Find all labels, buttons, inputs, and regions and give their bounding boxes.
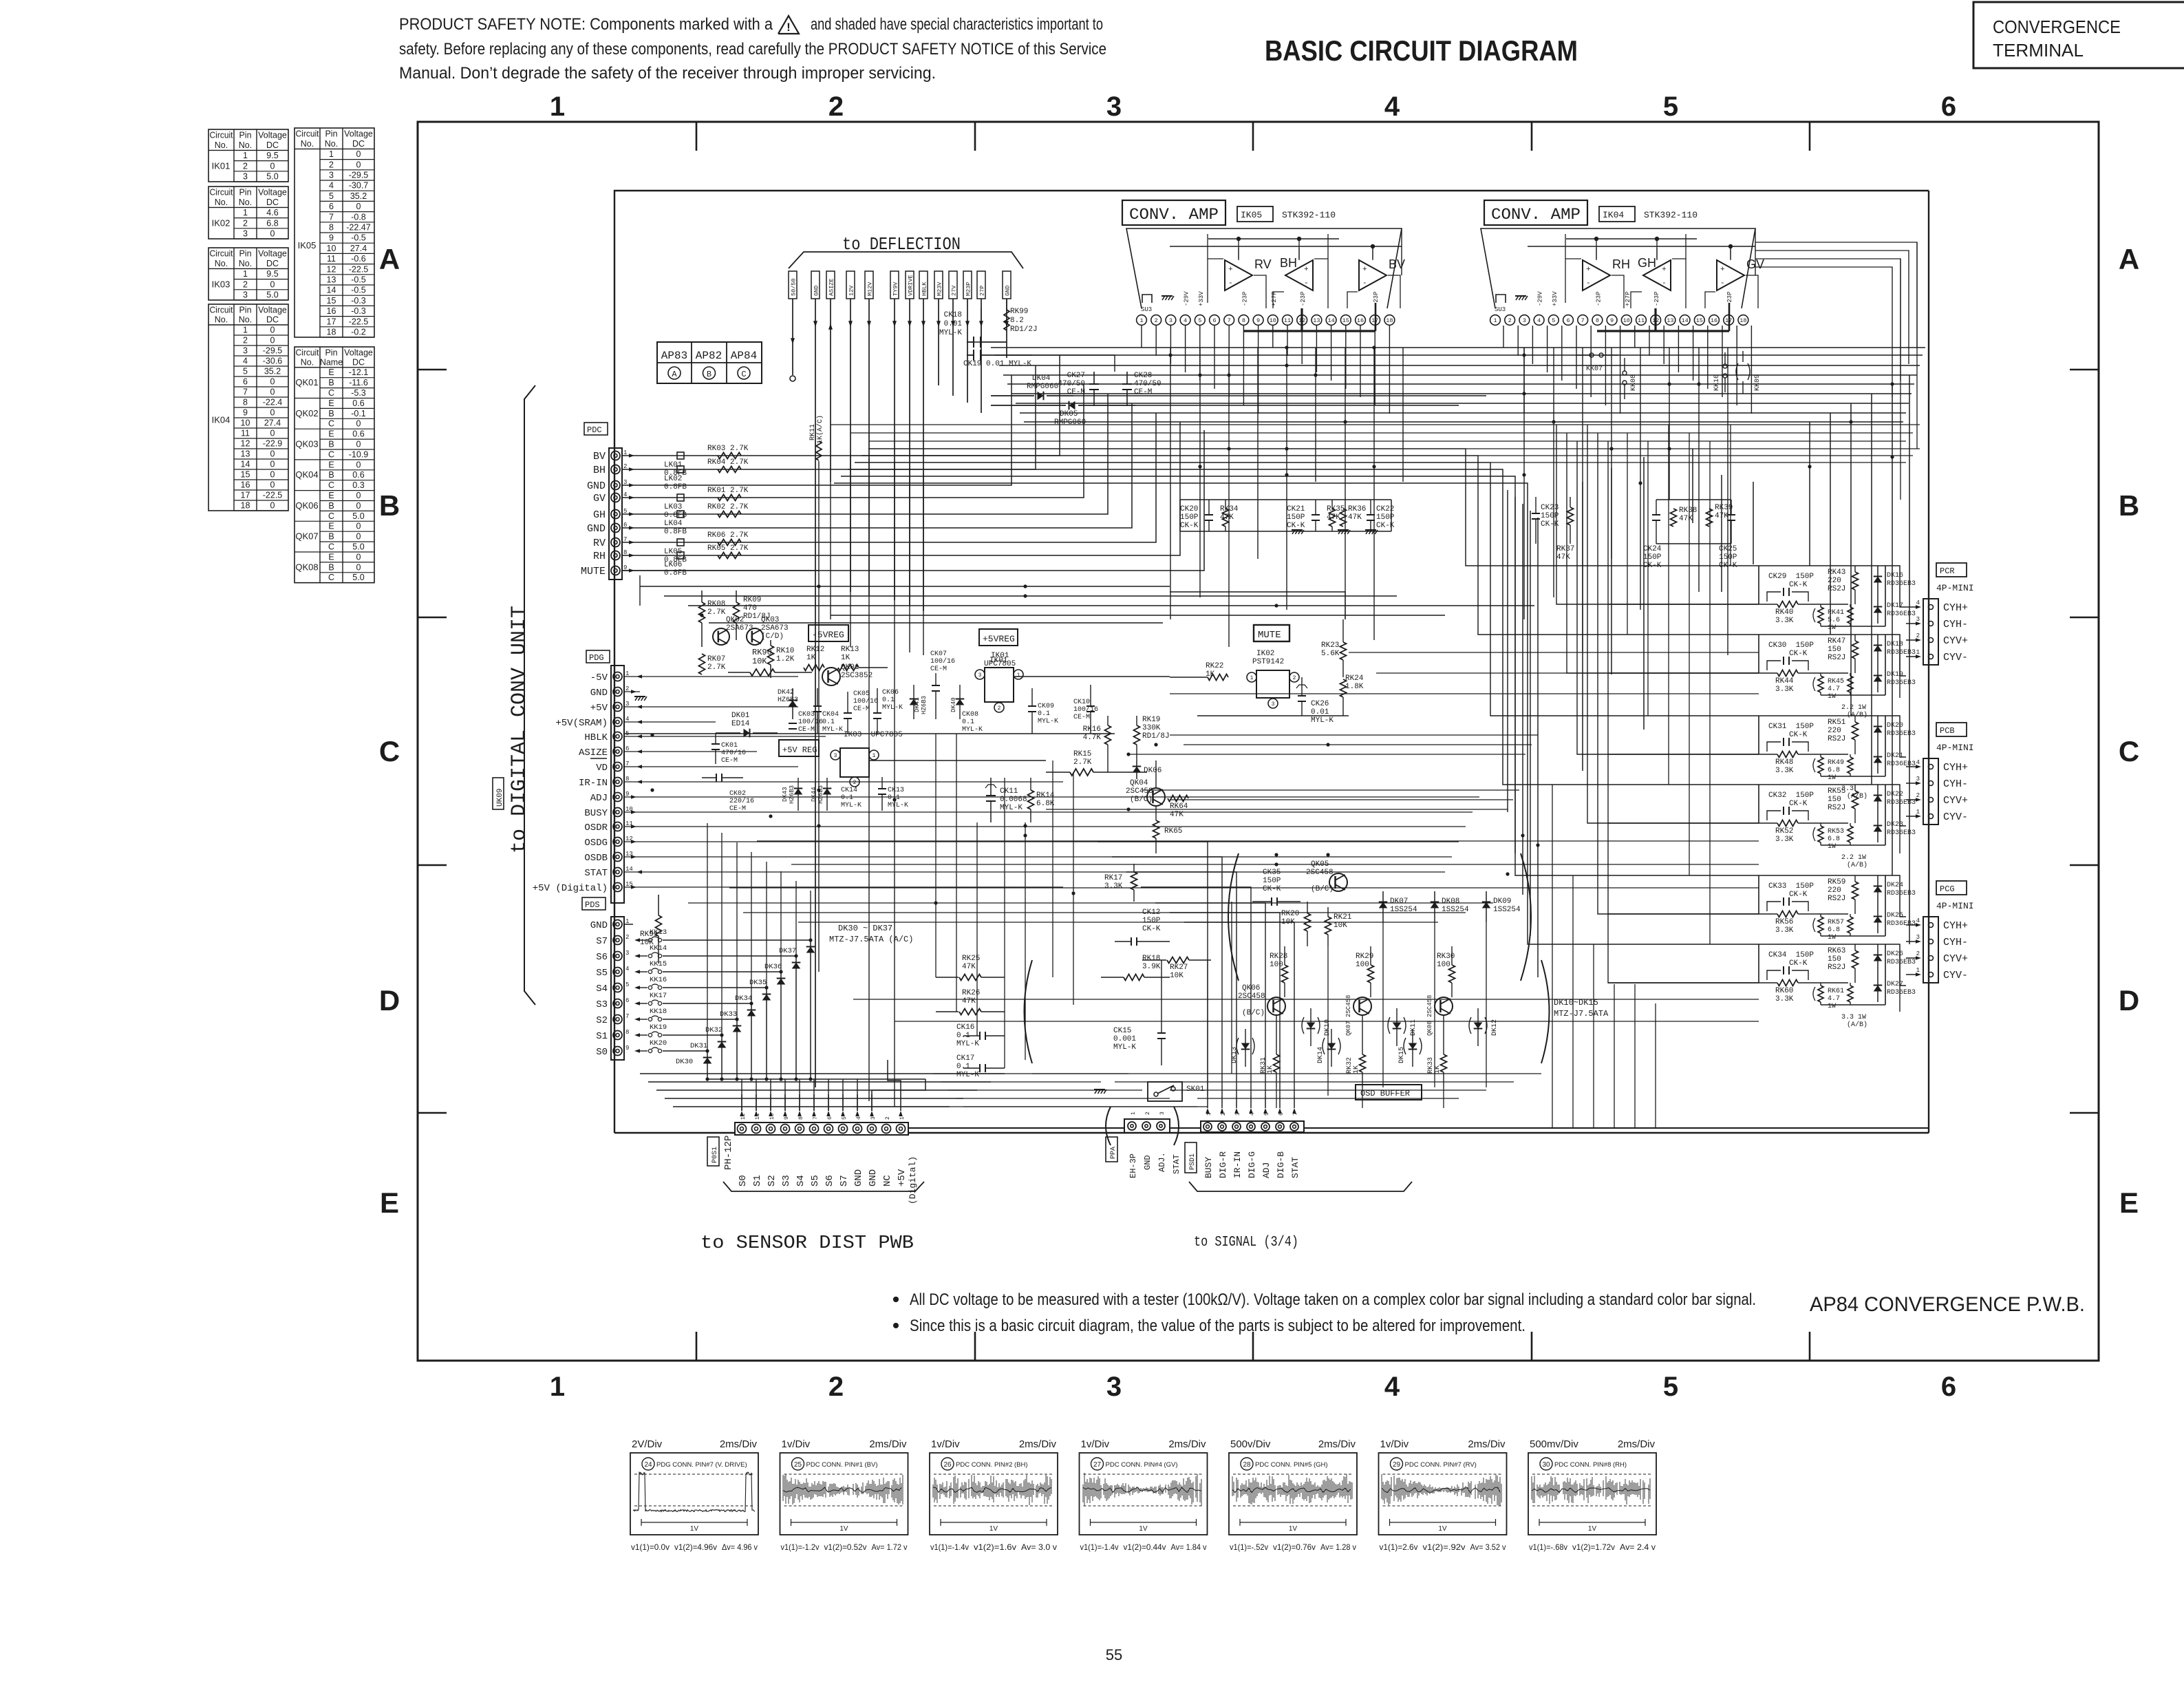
svg-text:RH: RH <box>593 551 606 562</box>
label P0S1 <box>707 1137 719 1166</box>
svg-text:GND: GND <box>587 523 606 535</box>
svg-text:KK13: KK13 <box>650 928 667 937</box>
connector P0S1 pin 8 S4 <box>795 1094 807 1187</box>
svg-text:CE-M: CE-M <box>721 757 738 765</box>
svg-text:S6: S6 <box>824 1175 835 1187</box>
svg-text:IK01: IK01 <box>212 160 231 171</box>
wire reg row 0 <box>1170 734 1538 736</box>
svg-text:100: 100 <box>1356 961 1369 969</box>
wire reg out <box>1014 676 1170 677</box>
wire elbow feed 2 <box>855 462 1759 716</box>
svg-text:11: 11 <box>1638 317 1645 324</box>
resistor RK14 6.8K <box>1028 778 1055 822</box>
svg-text:(Digital): (Digital) <box>908 1156 918 1204</box>
svg-text:1: 1 <box>1131 1111 1137 1115</box>
wire upper row 1 <box>850 432 1913 434</box>
svg-text:8: 8 <box>625 1029 629 1036</box>
svg-text:CK27: CK27 <box>1067 372 1085 380</box>
svg-text:PDC: PDC <box>587 425 602 435</box>
wire amp2 pin3 drop <box>1532 326 1533 364</box>
svg-text:DC: DC <box>266 198 279 207</box>
capacitor CK12 150P CK-K <box>1115 908 1170 946</box>
capacitor CK09 0.1 MYL-K <box>1028 688 1058 734</box>
wire amp2 pin18 drop <box>1751 326 1752 414</box>
svg-text:-11.6: -11.6 <box>349 378 368 387</box>
svg-text:100: 100 <box>1437 961 1450 969</box>
svg-text:DK07: DK07 <box>1390 897 1408 906</box>
transistor QK08 2SC458 <box>1426 995 1453 1036</box>
svg-text:220: 220 <box>1828 577 1841 585</box>
svg-text:1: 1 <box>550 92 565 122</box>
svg-text:-0.8: -0.8 <box>351 212 366 222</box>
wire vertical right 7 <box>1830 413 1831 635</box>
svg-text:C: C <box>328 388 334 398</box>
svg-text:BUSY: BUSY <box>1203 1157 1214 1178</box>
svg-text:+5V(SRAM): +5V(SRAM) <box>555 718 608 729</box>
svg-text:Voltage: Voltage <box>344 348 373 357</box>
svg-text:6.8: 6.8 <box>1828 836 1840 843</box>
svg-text:CYV+: CYV+ <box>1943 795 1968 807</box>
connector PCR body <box>1923 599 1938 665</box>
svg-text:RK24: RK24 <box>1345 674 1364 683</box>
svg-text:150P: 150P <box>1263 877 1281 885</box>
diode DK09 1SS254 <box>1482 891 1521 922</box>
wire amp1 pin11 drop <box>1287 326 1288 356</box>
capacitor CK31 150P CK-K <box>1767 723 1814 752</box>
wire upper row 0 <box>831 424 1920 425</box>
wire vertical right 0 <box>1582 482 1583 771</box>
amp pin 7 <box>1224 315 1234 326</box>
svg-text:IK05: IK05 <box>298 240 317 251</box>
svg-text:MYL-K: MYL-K <box>956 1040 979 1048</box>
connector PDG pin 7 VD <box>590 758 642 774</box>
svg-text:D: D <box>2119 984 2139 1017</box>
connector PDG pin 14 STAT <box>584 866 642 879</box>
connector PDG pin 4 +5V(SRAM) <box>555 716 642 729</box>
svg-text:2ms/Div: 2ms/Div <box>1468 1438 1506 1450</box>
svg-text:OSDB: OSDB <box>584 853 608 864</box>
wire amp1 pin6 drop <box>1214 326 1215 389</box>
resistor RK23 5.6K <box>1321 619 1347 677</box>
svg-text:9: 9 <box>625 1045 629 1052</box>
svg-text:RD36EB3: RD36EB3 <box>1887 890 1916 897</box>
wire amp2 pin6 drop <box>1576 326 1577 389</box>
connector PCG body <box>1923 917 1938 983</box>
wire vertical bundle 4 <box>1537 518 1539 977</box>
svg-text:4: 4 <box>1184 317 1187 324</box>
svg-text:1V: 1V <box>1289 1525 1298 1533</box>
wire mid vertical 1 <box>956 734 957 1012</box>
svg-text:1: 1 <box>1916 809 1920 816</box>
paren arc left <box>1228 853 1239 981</box>
svg-text:M12V: M12V <box>867 281 874 296</box>
table: IK04 voltages <box>208 304 288 511</box>
svg-text:4: 4 <box>1916 917 1920 924</box>
capacitor CK17 0.1 MYL-K <box>956 1054 1005 1079</box>
svg-text:PDS: PDS <box>585 900 600 910</box>
svg-text:GND: GND <box>813 286 820 296</box>
svg-text:DK33: DK33 <box>720 1010 737 1019</box>
amp module outline IK05 <box>1126 228 1402 308</box>
svg-text:4: 4 <box>1384 1372 1400 1402</box>
capacitor CK14 0.1 MYL-K <box>841 787 861 809</box>
svg-text:S3: S3 <box>781 1175 792 1187</box>
svg-text:STAT: STAT <box>1290 1157 1300 1178</box>
svg-text:2.7K: 2.7K <box>707 663 726 672</box>
svg-text:10K: 10K <box>1170 972 1184 980</box>
svg-text:No.: No. <box>215 315 228 325</box>
resistor RK09 470 RD1/8J <box>734 591 771 640</box>
wire amp2 long drop 1 <box>1553 348 1554 597</box>
svg-text:2ms/Div: 2ms/Div <box>869 1438 907 1450</box>
pin voltage label -23P <box>1241 291 1248 306</box>
jumper KK14 <box>639 944 798 958</box>
svg-text:Av= 1.84 v: Av= 1.84 v <box>1171 1542 1207 1552</box>
wire amp2 long drop 2 <box>1582 348 1583 651</box>
wire mid vertical 0 <box>935 734 936 977</box>
amp pin 8 <box>1592 315 1603 326</box>
svg-text:RD36EB3: RD36EB3 <box>1887 649 1916 657</box>
svg-text:RK23: RK23 <box>1321 641 1339 650</box>
wire bottom bus 4 <box>963 1106 1197 1107</box>
svg-text:v1(2)=.92v: v1(2)=.92v <box>1423 1542 1466 1552</box>
svg-text:RK45: RK45 <box>1828 678 1844 685</box>
wire ck19 run <box>1032 355 1115 372</box>
inductor LK02 0.8FB <box>664 466 687 491</box>
svg-text:GND: GND <box>590 920 608 931</box>
svg-text:CE-M: CE-M <box>853 705 870 713</box>
table: IK03 voltages <box>208 248 288 300</box>
wire amp2 long drop 7 <box>1727 348 1728 655</box>
op-amp RV <box>1225 257 1272 290</box>
deflection pin ASIZE <box>826 271 835 482</box>
transistor QK06 2SC458 <box>1238 984 1285 1017</box>
svg-text:16: 16 <box>1711 317 1717 324</box>
svg-text:No.: No. <box>239 140 252 150</box>
amp pin 12 <box>1297 315 1307 326</box>
svg-text:13: 13 <box>1313 317 1320 324</box>
resistor RK55 220 RS2J <box>1828 785 1859 823</box>
wire block 1 to connector <box>1885 635 1906 676</box>
svg-text:PDC CONN. PIN#8 (RH): PDC CONN. PIN#8 (RH) <box>1554 1461 1627 1469</box>
svg-text:(A/B): (A/B) <box>1847 861 1867 869</box>
capacitor CK07 100/16 CE-M <box>930 650 955 719</box>
svg-text:RK63: RK63 <box>1828 947 1845 955</box>
svg-text:3.3K: 3.3K <box>1775 836 1794 844</box>
capacitor CK08 0.1 MYL-K <box>962 711 983 734</box>
wire vertical right 9 <box>1871 394 1872 785</box>
svg-text:BUSY: BUSY <box>584 808 608 819</box>
svg-text:S7: S7 <box>839 1175 850 1187</box>
svg-text:MYL-K: MYL-K <box>882 704 903 712</box>
wire block 5 to connector <box>1885 944 1906 986</box>
amp pin 1 <box>1490 315 1501 326</box>
wire osd drop 0 <box>1207 960 1208 1096</box>
svg-text:CK17: CK17 <box>956 1054 974 1063</box>
svg-text:AP84: AP84 <box>731 350 757 362</box>
wire right channel 0 <box>1552 785 1553 1128</box>
svg-text:B: B <box>328 470 334 480</box>
capacitor CK18 0.01 MYL-K <box>939 311 1007 348</box>
svg-text:CK-K: CK-K <box>1142 925 1161 933</box>
svg-text:No.: No. <box>215 140 228 150</box>
junction dots field <box>650 345 1894 904</box>
svg-text:-0.5: -0.5 <box>351 286 366 295</box>
wire PDG row 6 <box>624 751 757 752</box>
wire long feed row 1 <box>791 864 1759 865</box>
svg-text:4.7K: 4.7K <box>1083 734 1102 742</box>
svg-text:CK33 150P: CK33 150P <box>1768 882 1814 891</box>
wire elbow feed 1 <box>861 456 1759 635</box>
svg-text:MYL-K: MYL-K <box>956 1071 979 1079</box>
pin voltage label -23P <box>1373 291 1380 306</box>
capacitor CK16 0.1 MYL-K <box>956 1023 1005 1048</box>
svg-text:-22.4: -22.4 <box>263 398 283 407</box>
svg-text:CK03: CK03 <box>798 711 815 719</box>
wire block stair 4 <box>1598 433 1759 914</box>
svg-text:6: 6 <box>1566 317 1570 324</box>
ic IK01 UPC7805 <box>975 650 1023 712</box>
wire PDC staircase 5 <box>984 403 1132 528</box>
svg-text:S7: S7 <box>596 936 608 947</box>
svg-text:DK31: DK31 <box>690 1042 707 1050</box>
svg-text:(C/D): (C/D) <box>761 632 784 641</box>
svg-text:2: 2 <box>243 336 248 345</box>
svg-text:-0.1: -0.1 <box>351 409 366 418</box>
svg-text:Av= 1.28 v: Av= 1.28 v <box>1320 1542 1356 1552</box>
wire vertical right 8 <box>1850 403 1852 716</box>
svg-text:RD36EB3: RD36EB3 <box>1887 610 1916 618</box>
wire osd drop 4 <box>1434 922 1435 1087</box>
svg-text:0.1: 0.1 <box>956 1063 970 1071</box>
svg-text:0.6: 0.6 <box>352 429 364 439</box>
svg-text:2: 2 <box>329 160 334 169</box>
svg-text:1: 1 <box>1017 672 1020 679</box>
wire PDC staircase 8 <box>984 430 1204 571</box>
wire left vertical 4 <box>894 462 895 1107</box>
svg-text:-: - <box>1362 279 1367 288</box>
rc block rail CK29 <box>1759 566 1885 626</box>
resistor RK07 2.7K <box>699 654 726 674</box>
svg-text:1K(A/C): 1K(A/C) <box>816 415 824 444</box>
svg-text:9: 9 <box>329 233 334 243</box>
svg-text:RK12: RK12 <box>806 646 824 654</box>
connector PDG pin 9 ADJ <box>590 791 636 804</box>
svg-text:500mv/Div: 500mv/Div <box>1530 1438 1578 1450</box>
svg-text:-: - <box>1304 279 1309 288</box>
wire mute block frame <box>1203 592 1345 619</box>
wire elbow feed 3 <box>848 469 1759 785</box>
svg-text:C: C <box>328 511 334 521</box>
wire block stair 1 <box>1567 433 1759 673</box>
connector PSD1 pin 5 ADJ <box>1261 1096 1272 1178</box>
wire PSD1 drop 1 <box>1112 857 1222 1096</box>
note 2.2 1W <box>1841 854 1867 869</box>
resistor RK63 220 RS2J <box>1828 944 1859 983</box>
svg-text:KK07: KK07 <box>1586 365 1603 373</box>
svg-text:DK18: DK18 <box>1887 641 1903 648</box>
svg-text:-22.5: -22.5 <box>263 491 283 500</box>
svg-text:-0.5: -0.5 <box>351 275 366 285</box>
wire right drop 1 <box>1647 441 1649 716</box>
svg-text:ED14: ED14 <box>731 720 750 728</box>
svg-text:v1(1)=-.68v: v1(1)=-.68v <box>1529 1542 1567 1552</box>
svg-text:0: 0 <box>270 387 275 397</box>
svg-text:QK08 2SC458: QK08 2SC458 <box>1426 995 1433 1036</box>
svg-text:0: 0 <box>356 440 361 449</box>
wire defl to ck19 <box>974 308 981 342</box>
pin voltage label -23P <box>1653 291 1660 306</box>
svg-text:B: B <box>328 378 334 387</box>
deflection pin M23P <box>963 271 972 403</box>
svg-text:RK02 2.7K: RK02 2.7K <box>707 503 749 511</box>
svg-text:PDC CONN. PIN#1 (BV): PDC CONN. PIN#1 (BV) <box>806 1461 878 1469</box>
svg-text:35.2: 35.2 <box>264 367 281 376</box>
rc block rail CK34 <box>1759 944 1885 1005</box>
wire PDG row 3 <box>624 706 798 708</box>
connector PSD1 pin 6 DIG-B <box>1276 1096 1286 1178</box>
pin voltage label +33V <box>1552 291 1559 306</box>
svg-text:DC: DC <box>266 259 279 268</box>
waveform box 27 <box>1080 1438 1208 1552</box>
diode DK15 <box>1398 1029 1422 1067</box>
wire P0S1 drop 2 <box>770 1079 771 1111</box>
svg-text:CK-K: CK-K <box>1789 650 1808 658</box>
wire mid vertical 6 <box>1073 772 1074 1005</box>
capacitor CK10 100/16 CE-M <box>1073 685 1098 734</box>
svg-text:8.2: 8.2 <box>1010 317 1024 325</box>
connector PSD1 pin 3 IR-IN <box>1232 1096 1243 1178</box>
svg-text:EH-3P: EH-3P <box>1128 1153 1138 1178</box>
svg-text:P0S1: P0S1 <box>711 1147 719 1163</box>
svg-text:STAT: STAT <box>584 868 608 879</box>
svg-text:5: 5 <box>1663 1372 1678 1402</box>
paren PPA right <box>1174 1107 1179 1145</box>
svg-text:v1(1)=-1.4v: v1(1)=-1.4v <box>930 1542 969 1552</box>
svg-text:1: 1 <box>1916 967 1920 974</box>
svg-text:Circuit: Circuit <box>210 188 234 198</box>
connector PDG pin 3 +5V <box>590 701 642 714</box>
resistor small 1W second <box>1848 917 1853 933</box>
net label PDS <box>582 897 606 910</box>
svg-text:1K: 1K <box>1353 1065 1360 1074</box>
svg-text:RK10: RK10 <box>776 647 794 655</box>
svg-text:LK02: LK02 <box>664 475 682 483</box>
connector P0S1 PH-12P body <box>735 1123 908 1135</box>
capacitor CK02 220/16 CE-M <box>702 774 754 813</box>
svg-text:DK35: DK35 <box>749 979 767 987</box>
connector PDG pin 1 -5V <box>590 670 642 683</box>
svg-text:Circuit: Circuit <box>210 249 234 259</box>
svg-text:RK18: RK18 <box>1142 955 1160 963</box>
wire amp2 top rails <box>1755 228 1756 275</box>
svg-text:B: B <box>328 440 334 449</box>
svg-text:DK06: DK06 <box>1144 767 1161 775</box>
svg-text:0: 0 <box>356 522 361 531</box>
connector PDS pin 8 S1 <box>596 1029 640 1042</box>
wire amp1 pin16 drop <box>1360 326 1361 397</box>
resistor RK32 1K <box>1346 1015 1366 1087</box>
amp pin 2 <box>1151 315 1161 326</box>
svg-text:CK-K: CK-K <box>1287 522 1305 530</box>
svg-text:A: A <box>2119 243 2139 275</box>
amp pin 5 <box>1548 315 1559 326</box>
svg-text:2: 2 <box>1916 632 1920 639</box>
wire row tail 2 <box>1490 462 1906 463</box>
svg-text:2ms/Div: 2ms/Div <box>720 1438 758 1450</box>
arrow P0S1 +5V <box>899 1111 903 1116</box>
wire amp1 pin4 drop <box>1185 326 1186 372</box>
resistor RK59 220 RS2J <box>1828 875 1859 914</box>
resistor RK02 2.7K <box>707 503 749 518</box>
wire cap cluster box sides <box>1180 500 1391 531</box>
wire PDC row 6 <box>622 527 984 529</box>
wire P0S1 drop 6 <box>828 1079 829 1111</box>
svg-text:-23P: -23P <box>1300 291 1307 306</box>
connector PDC pin 3 GND <box>587 479 634 492</box>
wire osd drop 2 <box>1327 946 1329 1096</box>
svg-text:No.: No. <box>301 139 314 149</box>
svg-text:RD36EB3: RD36EB3 <box>1887 920 1916 928</box>
labels PPA pins <box>1128 1152 1181 1178</box>
capacitor CK23 150P CK-K resistor RK37 47K <box>1532 497 1574 562</box>
zener DK40 HZ6B3 <box>950 685 964 719</box>
connector P0S1 pin 7 S5 <box>810 1094 822 1187</box>
svg-text:CK32 150P: CK32 150P <box>1768 791 1814 800</box>
svg-text:ASIZE: ASIZE <box>828 278 835 296</box>
paren arc left2 <box>1025 960 1033 1063</box>
svg-text:CK28: CK28 <box>1134 372 1152 380</box>
connector PDC pin 8 RH <box>593 549 634 562</box>
wire osd drop 7 <box>1362 1087 1363 1108</box>
svg-text:47K: 47K <box>1679 515 1693 523</box>
svg-text:3: 3 <box>978 672 982 679</box>
svg-text:-0.2: -0.2 <box>351 328 366 337</box>
svg-text:CE-M: CE-M <box>1067 388 1085 396</box>
svg-text:CK20: CK20 <box>1180 505 1198 513</box>
svg-text:0.1: 0.1 <box>841 794 853 802</box>
wire amp1 pin10 drop <box>1272 326 1274 348</box>
block label CONV. AMP <box>1484 200 1587 225</box>
svg-text:-: - <box>1228 279 1233 288</box>
svg-text:KK19: KK19 <box>650 1023 667 1032</box>
resistor RK52 3.3K <box>1759 820 1848 844</box>
wire PDG row 2 <box>624 691 640 692</box>
svg-text:B: B <box>328 501 334 511</box>
amp pin 7 <box>1578 315 1588 326</box>
svg-text:E: E <box>328 429 334 439</box>
svg-text:1V: 1V <box>989 1525 998 1533</box>
wire amp1 pin1 drop <box>1141 326 1142 348</box>
svg-text:STK392-110: STK392-110 <box>1644 210 1698 220</box>
svg-text:and shaded have special charac: and shaded have special characteristics … <box>811 15 1103 34</box>
svg-text:4: 4 <box>1384 92 1400 122</box>
switch SK01 <box>1148 1082 1205 1101</box>
wire mid row 3 <box>831 615 1445 616</box>
svg-text:No.: No. <box>239 315 252 325</box>
svg-text:DIG-B: DIG-B <box>1276 1151 1286 1178</box>
svg-text:1v/Div: 1v/Div <box>1380 1438 1409 1450</box>
svg-text:RD1/2J: RD1/2J <box>1010 326 1038 334</box>
svg-text:RD36EB3: RD36EB3 <box>1887 730 1916 738</box>
wire block 4 to connector <box>1885 875 1906 917</box>
svg-text:E: E <box>328 368 334 377</box>
amp pin 9 <box>1607 315 1617 326</box>
zener DK42 HZ6B3 <box>778 688 798 719</box>
svg-text:PDG: PDG <box>589 653 604 663</box>
wire bus D1 <box>743 912 1466 913</box>
wire amp2 right out 3 <box>1755 267 1892 397</box>
